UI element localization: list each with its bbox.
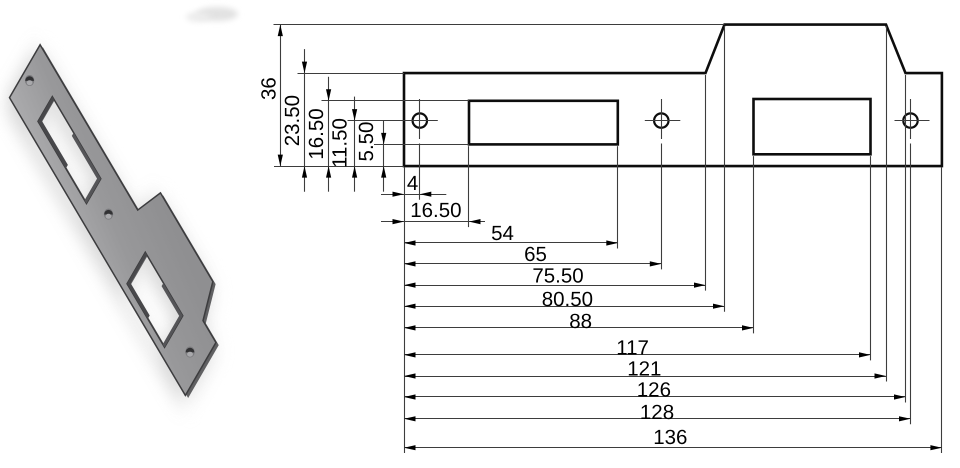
dimension 126 horizontal: [404, 379, 906, 402]
svg-text:16.50: 16.50: [410, 199, 461, 222]
3d slot1 inner wall near: [38, 97, 80, 169]
svg-text:16.50: 16.50: [305, 108, 328, 159]
svg-text:121: 121: [627, 358, 661, 381]
slot 2 (deadbolt): [754, 99, 871, 154]
svg-text:136: 136: [653, 426, 687, 449]
dimension 75.50 horizontal: [404, 265, 706, 288]
dimension 88 horizontal: [404, 310, 754, 333]
dimension 5.50 vertical: [355, 120, 386, 191]
3d plate front face: [10, 17, 233, 396]
svg-text:5.50: 5.50: [355, 122, 378, 162]
svg-text:75.50: 75.50: [532, 265, 583, 288]
plate outline 2d: [404, 25, 942, 167]
3d hole B: [104, 209, 113, 220]
3d hole C: [185, 347, 194, 358]
svg-text:88: 88: [569, 310, 592, 333]
svg-text:126: 126: [637, 379, 671, 402]
3d slot1 inner wall far: [59, 133, 100, 204]
3d plate drop shadow: [4, 23, 227, 402]
3d slot2 inner wall near: [127, 252, 166, 319]
svg-text:80.50: 80.50: [542, 288, 593, 311]
dimension 16.50 vertical: [305, 77, 331, 192]
screw hole 2: [654, 113, 668, 127]
dimension 65 horizontal: [404, 243, 661, 267]
svg-text:11.50: 11.50: [329, 118, 352, 168]
3d slot2 inner wall far: [145, 283, 183, 347]
svg-text:54: 54: [491, 222, 514, 245]
slot 1 (latch): [469, 101, 618, 145]
dimension 80.50 horizontal: [404, 288, 725, 311]
dimension 4 horizontal: [381, 172, 446, 197]
3d plate thickness (back face): [12, 19, 235, 398]
dimension 136 horizontal: [404, 426, 942, 450]
3d hole A: [25, 75, 34, 86]
svg-text:23.50: 23.50: [281, 95, 304, 146]
dimension 54 horizontal: [404, 222, 618, 246]
dimension 121 horizontal: [404, 358, 886, 381]
svg-text:36: 36: [258, 77, 281, 100]
dimension 16.50 horizontal: [381, 199, 485, 224]
dimension 36 vertical: [258, 25, 283, 167]
screw hole 3: [903, 113, 917, 127]
screw hole 1: [413, 113, 427, 127]
svg-text:128: 128: [640, 401, 674, 424]
svg-text:65: 65: [524, 243, 547, 266]
vertical extension lines below plate: [405, 26, 942, 453]
3d plate ambient shadow right: [15, 26, 238, 405]
horizontal extension lines left: [274, 25, 725, 167]
dimension 128 horizontal: [404, 401, 911, 424]
dimension 11.50 vertical: [329, 97, 358, 192]
dimension 23.50 vertical: [281, 49, 307, 192]
svg-text:117: 117: [616, 337, 649, 360]
svg-text:4: 4: [407, 172, 418, 195]
hole centerlines: [404, 99, 929, 424]
dimension 117 horizontal: [404, 337, 871, 360]
3d shadow smudge top: [186, 7, 238, 22]
